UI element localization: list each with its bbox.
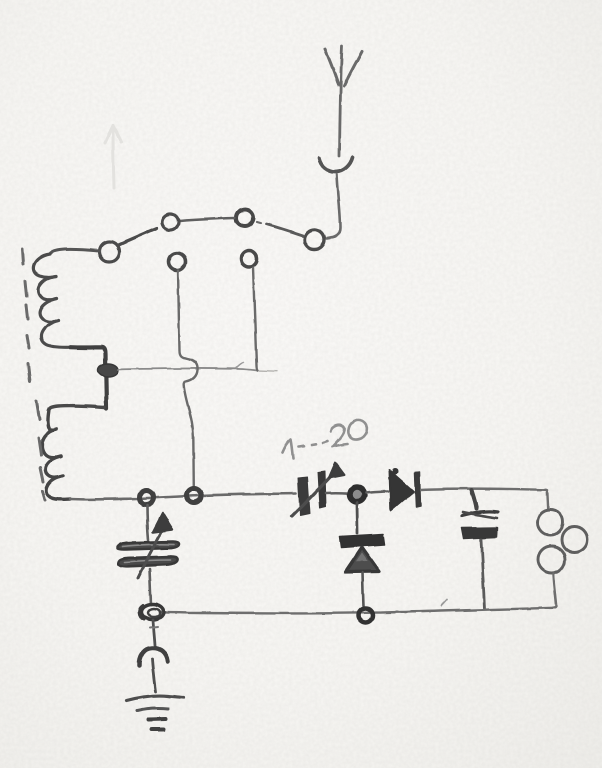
wire J3 down to diode D2 <box>356 503 359 533</box>
switch arm <box>118 229 158 246</box>
inductor L2 top wire <box>49 406 105 410</box>
ground bar 4 <box>152 728 164 732</box>
switch contact C2 <box>241 251 257 267</box>
ground arch <box>139 648 167 666</box>
switch pole <box>100 242 120 262</box>
node J2a <box>140 491 154 505</box>
inductor L2 <box>42 410 70 499</box>
antenna <box>319 46 362 172</box>
variable capacitor C1 bottom plate <box>119 556 178 566</box>
capacitor C4 bottom plate <box>462 528 497 539</box>
wire nib at contact A2 <box>257 222 261 223</box>
wire C3 to node J3 <box>326 491 349 494</box>
wire contact C1 down with hop over <box>178 271 198 490</box>
capacitor C4 stub <box>472 490 477 509</box>
node J1 tap junction <box>98 364 118 377</box>
wire L1 bottom to coil L2 top (dark) <box>70 347 107 409</box>
wire D1 to top right rail <box>421 489 548 510</box>
wire contact A2 to contact B <box>266 224 303 236</box>
switch contact A1 <box>163 214 179 230</box>
switch contact C1 <box>169 254 186 271</box>
core dashed line L2 <box>37 401 45 500</box>
ground bar 3 <box>149 717 166 722</box>
node J4 <box>142 605 164 620</box>
wire J3 to diode D1 <box>366 491 388 493</box>
node loop at bottom of D2 <box>359 609 373 623</box>
wire L2 bottom rail to trimmer <box>70 494 296 500</box>
wire overshoot <box>257 370 277 373</box>
diode D1 <box>390 471 414 511</box>
core dashed line L1 <box>22 249 30 381</box>
wire J1 to contact C2 riser <box>118 368 258 370</box>
diode D2 triangle <box>346 548 380 573</box>
faint erased arrow ghost <box>105 126 121 188</box>
diode D2 cathode bar <box>340 534 385 548</box>
capacitor C4 top plate <box>462 512 498 516</box>
tick on bottom rail <box>442 600 448 606</box>
ground bar 2 <box>138 708 169 710</box>
variable capacitor C1 arrow <box>138 521 168 578</box>
wire antenna down to contact B <box>327 174 340 239</box>
wire C4 down to bottom rail <box>481 539 485 609</box>
tick mark on wire <box>236 363 244 369</box>
wire contact A1 to A2 <box>180 218 236 221</box>
switch contact B <box>305 230 325 250</box>
wire pole to coil L1 top <box>50 249 100 254</box>
wire C1 down to node J4 <box>150 569 152 605</box>
bottom rail wire <box>161 608 553 614</box>
label 1...20 <box>283 420 367 459</box>
switch contact A2 <box>237 209 254 226</box>
wire D2 down <box>363 573 364 607</box>
wire headphones down <box>553 574 557 608</box>
wire J2a down to capacitor C1 <box>147 505 149 540</box>
headphones <box>538 510 563 535</box>
ground inner wire <box>152 659 156 692</box>
wire contact C2 down <box>253 267 258 371</box>
ground wire down <box>153 620 155 645</box>
node J2b <box>187 489 201 503</box>
node J3 <box>350 487 365 502</box>
ground bar 1 <box>127 696 184 701</box>
inductor L1 <box>34 254 70 347</box>
variable capacitor C1 top plate <box>117 541 179 549</box>
trimmer capacitor C3 <box>298 477 310 516</box>
